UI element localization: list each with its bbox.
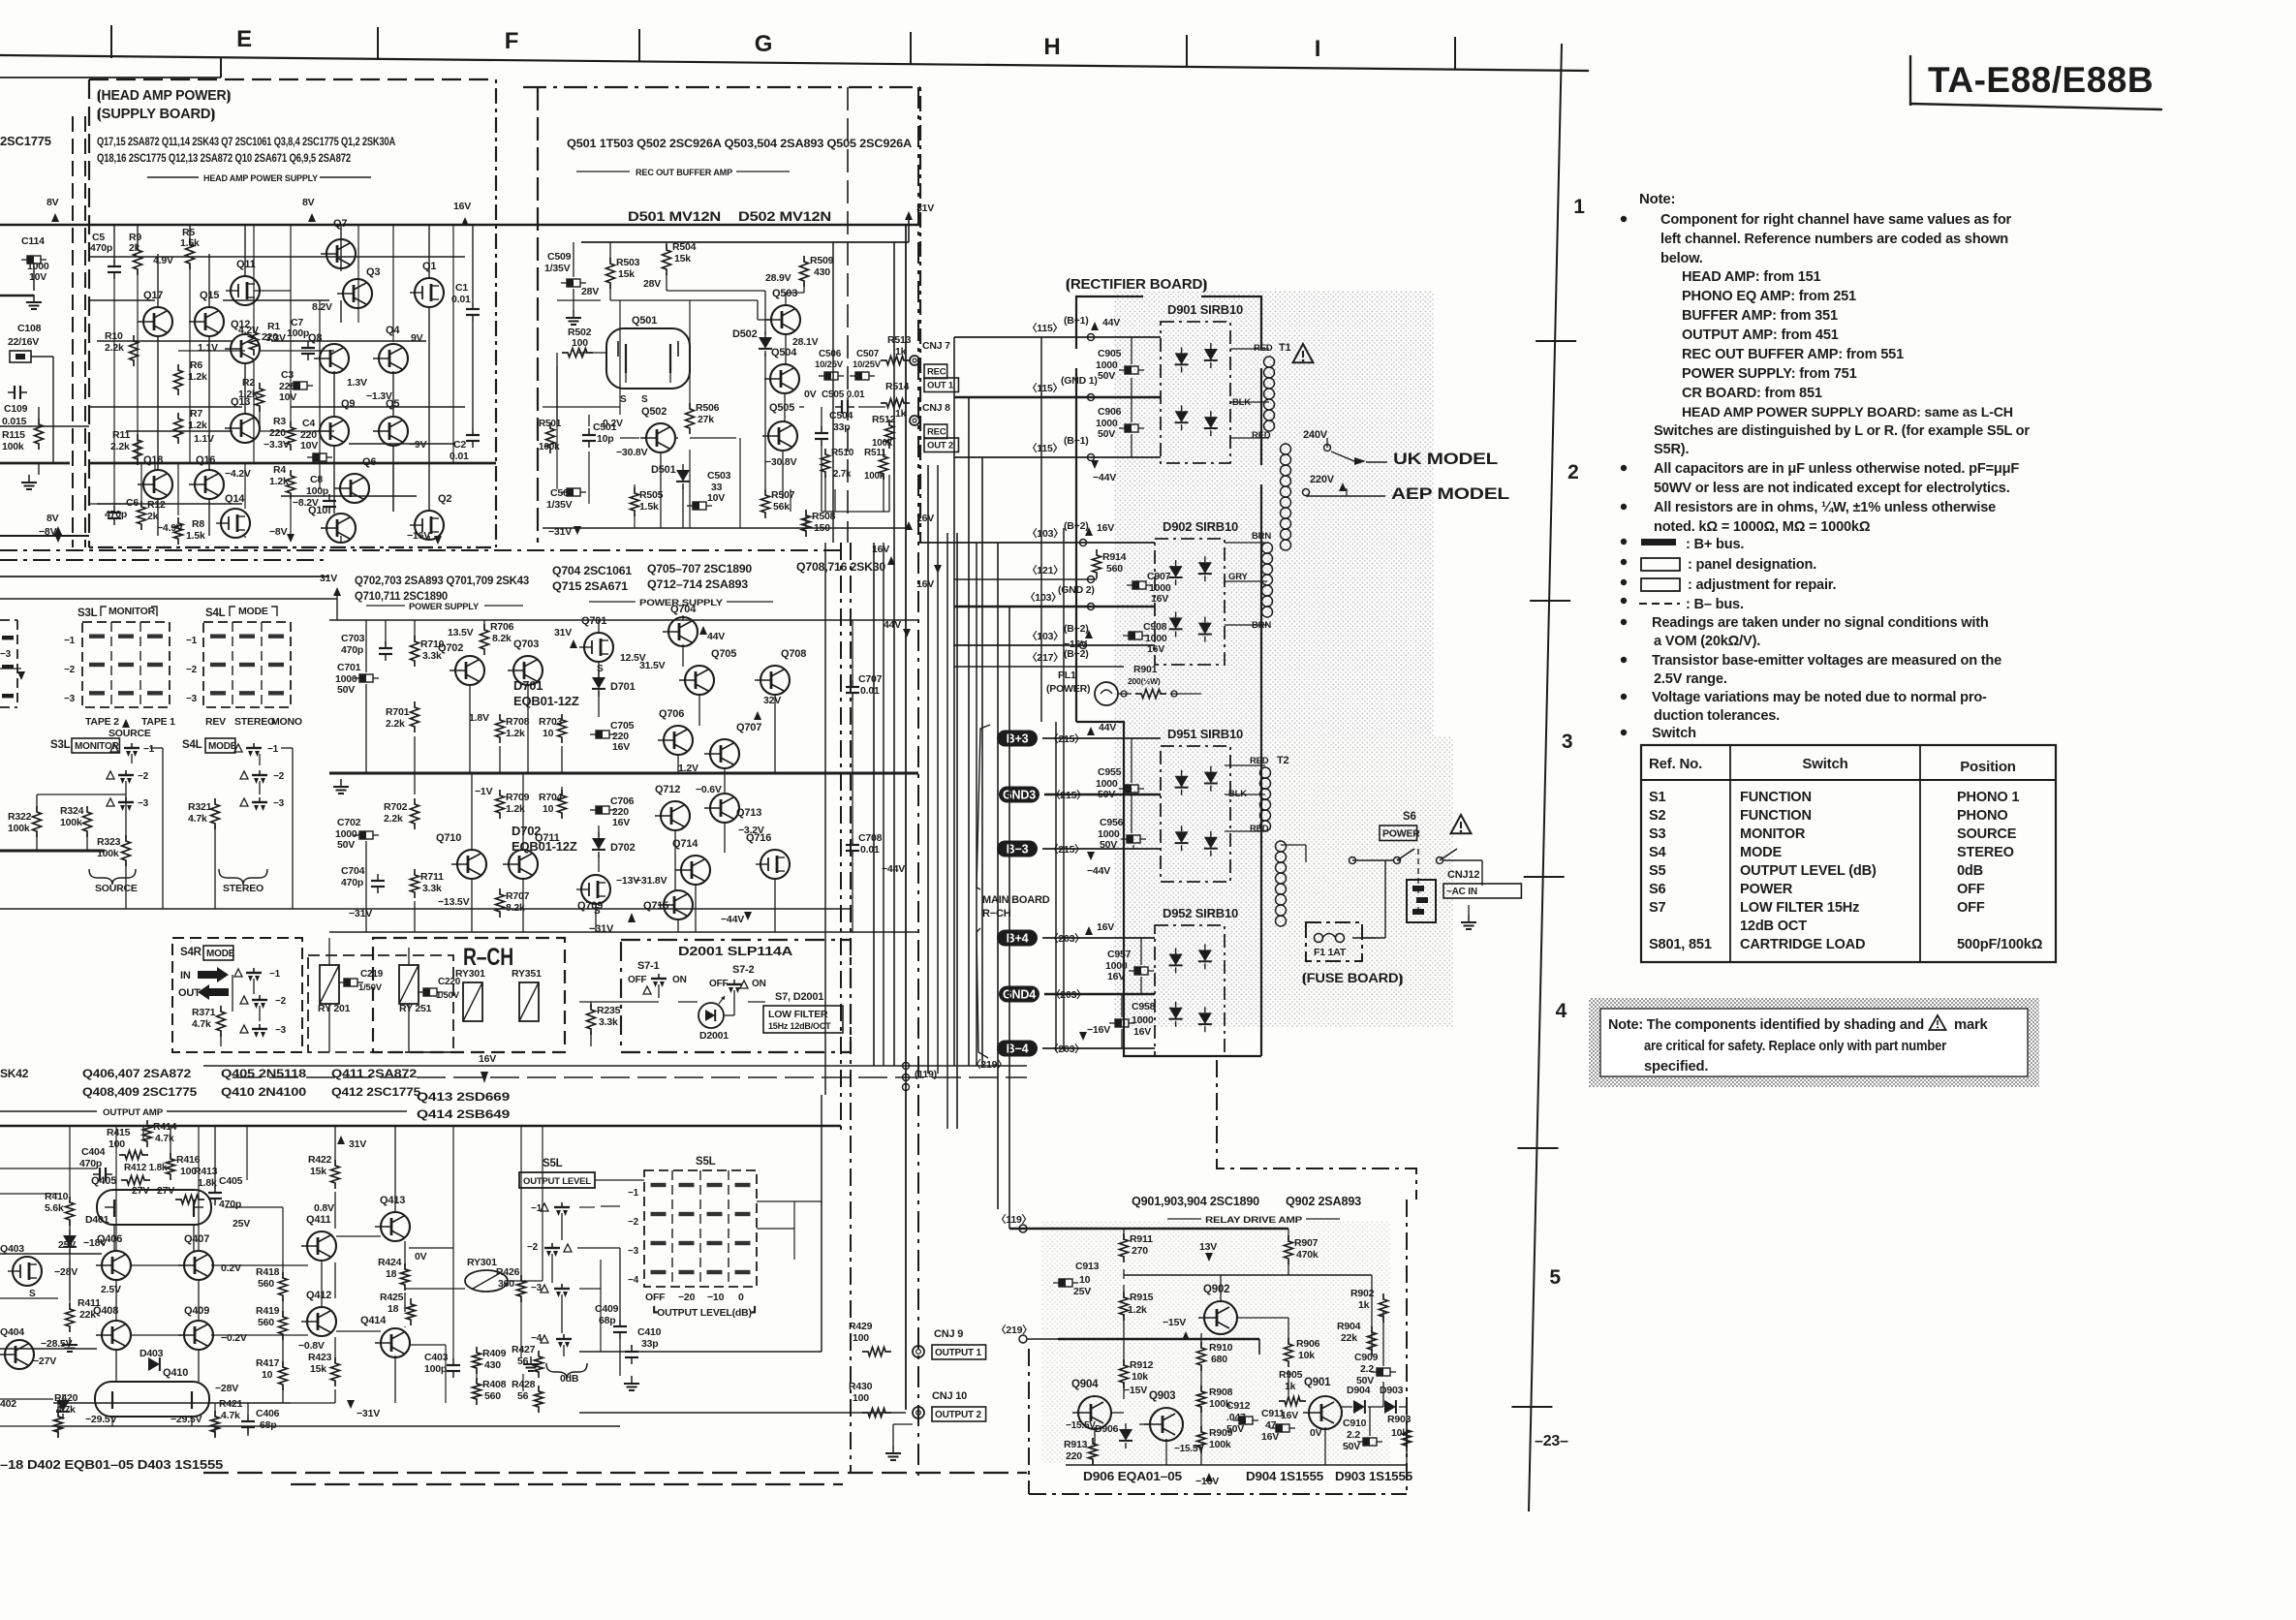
svg-text:10V: 10V xyxy=(29,271,47,283)
node OUTPUT1 label xyxy=(932,1345,986,1359)
node note bullet5 xyxy=(1621,559,1627,565)
transistor Q708 xyxy=(760,666,790,695)
transistor Q406 xyxy=(102,1251,131,1280)
svg-text:470p: 470p xyxy=(341,644,363,656)
svg-text:MODE: MODE xyxy=(1740,845,1782,860)
transistor Q707 xyxy=(710,739,739,768)
svg-text:560: 560 xyxy=(484,1390,501,1402)
svg-text:AEP MODEL: AEP MODEL xyxy=(1391,484,1509,503)
switch contact -3 xyxy=(252,801,267,803)
resistor R906 xyxy=(1285,1338,1293,1367)
svg-text:R408: R408 xyxy=(482,1379,507,1390)
transformer T2 secondary xyxy=(1260,767,1271,778)
capacitor C220 xyxy=(423,988,437,996)
svg-text:C6: C6 xyxy=(126,497,139,509)
svg-text:33p: 33p xyxy=(641,1338,659,1350)
node 16V xyxy=(905,521,913,530)
transistor Q902 xyxy=(1204,1301,1237,1334)
svg-text:POWER SUPPLY: POWER SUPPLY xyxy=(409,602,480,612)
svg-text:8.2k: 8.2k xyxy=(492,633,512,644)
svg-text:S2: S2 xyxy=(1649,808,1666,824)
wire xyxy=(937,465,939,1074)
wire xyxy=(946,533,948,1129)
svg-text:Q412 2SC1775: Q412 2SC1775 xyxy=(331,1085,421,1099)
svg-text:~AC IN: ~AC IN xyxy=(1446,887,1477,897)
wire xyxy=(927,465,929,1074)
svg-text:R906: R906 xyxy=(1296,1338,1320,1350)
svg-text:〈103〉: 〈103〉 xyxy=(1027,527,1064,540)
svg-text:S4L: S4L xyxy=(182,739,202,751)
svg-text:15k: 15k xyxy=(310,1363,326,1375)
svg-text:Q712: Q712 xyxy=(655,784,680,795)
svg-text:R423: R423 xyxy=(308,1352,332,1363)
switch contact -2 xyxy=(118,774,134,776)
wire xyxy=(113,1225,115,1251)
svg-text:: adjustment for repair.: : adjustment for repair. xyxy=(1688,577,1836,593)
svg-text:Q704: Q704 xyxy=(670,604,697,615)
svg-text:R501: R501 xyxy=(539,419,562,429)
svg-text:C409: C409 xyxy=(595,1303,619,1315)
wire xyxy=(678,931,918,933)
wire xyxy=(579,1001,659,1003)
wire xyxy=(690,437,736,439)
svg-text:Q503: Q503 xyxy=(772,288,797,299)
svg-text:R908: R908 xyxy=(1209,1386,1233,1398)
svg-text:10V: 10V xyxy=(300,440,318,452)
wire xyxy=(97,340,233,342)
svg-text:0dB: 0dB xyxy=(1957,863,1983,879)
svg-text:C3: C3 xyxy=(281,369,294,381)
transistor Q706 xyxy=(664,726,693,755)
node GND3 pill xyxy=(999,787,1039,803)
svg-text:Q403: Q403 xyxy=(0,1243,24,1255)
svg-text:50V: 50V xyxy=(1226,1423,1244,1435)
svg-text:2.5V range.: 2.5V range. xyxy=(1654,671,1727,687)
svg-text:22/16V: 22/16V xyxy=(8,336,39,348)
diode D403 xyxy=(148,1357,160,1371)
svg-text:(GND 1): (GND 1) xyxy=(1061,375,1098,387)
wire xyxy=(888,475,890,512)
node note bullet8 xyxy=(1621,619,1627,625)
node REC OUT2 label xyxy=(924,424,947,439)
svg-text:S1: S1 xyxy=(1649,790,1666,805)
svg-text:R708: R708 xyxy=(506,716,530,728)
svg-text:Q412: Q412 xyxy=(306,1290,331,1301)
svg-text:R901: R901 xyxy=(1133,664,1158,675)
ground xyxy=(1468,915,1470,922)
svg-text:Q902 2SA893: Q902 2SA893 xyxy=(1286,1195,1361,1208)
transistor Q409 xyxy=(184,1321,213,1350)
svg-text:31V: 31V xyxy=(320,573,337,584)
svg-text:C907: C907 xyxy=(1147,571,1171,582)
svg-text:R324: R324 xyxy=(60,805,84,817)
svg-text:16V: 16V xyxy=(872,544,889,555)
transistor Q411 xyxy=(307,1231,336,1261)
svg-text:PL1: PL1 xyxy=(1058,670,1076,681)
svg-text:(B−2): (B−2) xyxy=(1064,623,1089,635)
transistor Q15 xyxy=(195,307,224,336)
svg-text:Q405 2N5118: Q405 2N5118 xyxy=(221,1067,307,1080)
svg-text:D952 SIRB10: D952 SIRB10 xyxy=(1163,906,1238,920)
svg-text:CR BOARD: from 851: CR BOARD: from 851 xyxy=(1682,386,1822,401)
node note bullet11 xyxy=(1621,730,1627,735)
switch S4R array xyxy=(172,938,302,1052)
transformer T2 primary xyxy=(1276,841,1287,852)
wire xyxy=(520,1126,522,1281)
node SOURCE brace xyxy=(89,869,136,885)
node note bullet10 xyxy=(1621,694,1627,700)
svg-text:PHONO: PHONO xyxy=(1957,808,2008,824)
transistor Q18 xyxy=(143,470,172,499)
svg-text:D903 1S1555: D903 1S1555 xyxy=(1335,1470,1412,1483)
svg-text:R903: R903 xyxy=(1387,1414,1412,1425)
svg-text:1.2k: 1.2k xyxy=(188,371,207,383)
resistor R702 xyxy=(411,798,419,829)
svg-text:10: 10 xyxy=(262,1369,273,1381)
resistor R9 xyxy=(134,244,142,275)
svg-text:〈121〉: 〈121〉 xyxy=(1027,564,1064,576)
svg-text:SOURCE: SOURCE xyxy=(95,883,138,894)
svg-text:−0.2V: −0.2V xyxy=(221,1332,247,1344)
svg-text:Q408,409 2SC1775: Q408,409 2SC1775 xyxy=(82,1085,198,1099)
svg-text:10k: 10k xyxy=(1132,1371,1148,1383)
node -16V supply xyxy=(434,536,442,545)
wire xyxy=(282,1262,284,1278)
svg-text:R915: R915 xyxy=(1130,1292,1154,1303)
svg-text:R371: R371 xyxy=(192,1007,216,1018)
svg-text:470p: 470p xyxy=(341,877,363,888)
switch contact S4R-2 xyxy=(252,999,267,1001)
svg-text:Q414: Q414 xyxy=(360,1315,387,1326)
svg-text:TAPE 2: TAPE 2 xyxy=(85,716,119,728)
svg-text:Voltage variations may be note: Voltage variations may be noted due to n… xyxy=(1652,690,1987,705)
transistor Q6 xyxy=(340,474,369,503)
svg-text:16V: 16V xyxy=(916,578,934,590)
svg-text:ON: ON xyxy=(752,979,766,989)
svg-text:56: 56 xyxy=(517,1355,529,1367)
svg-text:SK42: SK42 xyxy=(0,1067,29,1080)
svg-text:Switches are distinguished by: Switches are distinguished by L or R. (f… xyxy=(1654,423,2030,439)
resistor R508 xyxy=(802,510,811,537)
svg-text:R907: R907 xyxy=(1294,1237,1319,1249)
svg-text:Q901,903,904 2SC1890: Q901,903,904 2SC1890 xyxy=(1132,1195,1259,1208)
transistor Q705 xyxy=(685,666,714,695)
wire xyxy=(1092,1459,1094,1465)
svg-text:2k: 2k xyxy=(129,242,140,254)
svg-text:−2: −2 xyxy=(527,1242,539,1253)
wire xyxy=(244,363,246,414)
svg-text:BUFFER AMP: from 351: BUFFER AMP: from 351 xyxy=(1682,308,1838,324)
svg-text:R7: R7 xyxy=(190,408,202,420)
svg-text:0: 0 xyxy=(738,1292,744,1303)
svg-text:S5: S5 xyxy=(1649,863,1666,879)
node CNJ8 xyxy=(910,416,919,425)
svg-text:R427: R427 xyxy=(512,1344,536,1355)
svg-text:(119): (119) xyxy=(915,1069,937,1080)
wire xyxy=(84,116,86,547)
svg-text:R912: R912 xyxy=(1130,1359,1154,1371)
svg-text:8.2k: 8.2k xyxy=(506,902,525,914)
svg-text:−1: −1 xyxy=(64,636,76,646)
svg-text:OFF: OFF xyxy=(1957,900,1985,916)
capacitor C219 xyxy=(344,979,357,986)
resistor R915 xyxy=(1120,1292,1129,1321)
wire xyxy=(472,225,474,302)
svg-text:18: 18 xyxy=(388,1303,399,1315)
svg-text:−44V: −44V xyxy=(721,914,744,925)
node right border xyxy=(1406,1199,1408,1494)
svg-text:270: 270 xyxy=(1132,1245,1148,1257)
svg-text:R414: R414 xyxy=(153,1121,177,1133)
svg-text:−2: −2 xyxy=(64,665,76,675)
svg-text:16V: 16V xyxy=(1133,1026,1151,1038)
svg-text:HEAD AMP POWER SUPPLY BOARD:: HEAD AMP POWER SUPPLY BOARD: same as L-C… xyxy=(1682,405,2013,421)
svg-text:10p: 10p xyxy=(597,433,614,445)
wire xyxy=(581,241,909,243)
svg-text:0.01: 0.01 xyxy=(860,844,880,856)
svg-text:1000: 1000 xyxy=(1132,1014,1154,1026)
resistor R704 xyxy=(558,790,567,819)
node main board bottom border xyxy=(291,1483,843,1485)
ground xyxy=(631,1376,633,1384)
transistor Q17 xyxy=(143,307,172,336)
wire xyxy=(0,224,89,226)
transistor Q702 xyxy=(455,656,484,685)
svg-text:D701: D701 xyxy=(610,681,636,693)
svg-text:560: 560 xyxy=(258,1278,274,1290)
svg-text:Q411: Q411 xyxy=(306,1214,331,1226)
resistor R910 xyxy=(1197,1342,1206,1371)
node rec out board border xyxy=(523,86,920,88)
svg-text:S5R).: S5R). xyxy=(1654,442,1689,457)
svg-text:C707: C707 xyxy=(858,673,883,685)
resistor R502 xyxy=(562,349,593,358)
wire xyxy=(131,1264,184,1266)
svg-text:0.01: 0.01 xyxy=(860,685,880,697)
wire xyxy=(1200,1333,1202,1349)
node output amp subtitle xyxy=(0,1110,97,1112)
wire xyxy=(1382,1310,1384,1366)
svg-text:R6: R6 xyxy=(190,359,202,371)
capacitor C707 xyxy=(852,680,853,687)
wire xyxy=(543,527,909,529)
resistor R710 xyxy=(411,636,419,667)
svg-text:R417: R417 xyxy=(256,1357,280,1369)
svg-text:1.1V: 1.1V xyxy=(194,433,214,445)
svg-text:2.2k: 2.2k xyxy=(386,718,405,730)
svg-text:50V: 50V xyxy=(1098,370,1115,382)
wire xyxy=(0,425,89,427)
transistor Q13 xyxy=(231,414,260,443)
svg-text:Q2: Q2 xyxy=(438,493,451,505)
svg-text:−31V: −31V xyxy=(589,923,614,935)
diode D702 zener xyxy=(592,838,605,850)
svg-text:200(½W): 200(½W) xyxy=(1128,676,1161,686)
wire xyxy=(677,755,679,773)
node 16V left labels xyxy=(887,556,895,565)
resistor R909 xyxy=(1197,1426,1206,1453)
wire xyxy=(72,116,74,547)
wire xyxy=(0,1125,841,1128)
node 31V supply xyxy=(905,211,913,220)
svg-text:R914: R914 xyxy=(1102,551,1127,563)
svg-text:16V: 16V xyxy=(453,201,471,212)
svg-text:1k: 1k xyxy=(1285,1381,1296,1392)
svg-text:REC: REC xyxy=(927,367,946,378)
svg-text:〈217〉: 〈217〉 xyxy=(1027,651,1064,664)
svg-text:S5L: S5L xyxy=(543,1158,563,1169)
capacitor C908 xyxy=(1129,632,1142,639)
svg-text:−15V: −15V xyxy=(1163,1317,1186,1328)
svg-text:TAPE 1: TAPE 1 xyxy=(141,716,175,728)
wire xyxy=(1063,528,1065,1051)
svg-text:28V: 28V xyxy=(643,278,661,290)
svg-text:Q6: Q6 xyxy=(362,456,376,468)
node power supply subtitle xyxy=(366,605,405,607)
svg-text:13.5V: 13.5V xyxy=(448,627,474,639)
svg-text:D902 SIRB10: D902 SIRB10 xyxy=(1163,519,1238,534)
svg-text:−20: −20 xyxy=(678,1292,696,1303)
svg-text:: B– bus.: : B– bus. xyxy=(1686,597,1744,612)
svg-text:R706: R706 xyxy=(490,621,514,633)
wire xyxy=(215,780,244,782)
svg-text:〈219〉: 〈219〉 xyxy=(996,1324,1033,1336)
wire xyxy=(660,452,662,528)
capacitor C706 xyxy=(596,806,609,814)
svg-text:9V: 9V xyxy=(411,332,423,344)
wire xyxy=(97,503,242,505)
wire xyxy=(956,533,958,1129)
wire xyxy=(595,1179,644,1181)
wire xyxy=(573,242,574,277)
svg-text:Q16: Q16 xyxy=(196,454,215,466)
transistor Q12 xyxy=(231,334,260,363)
svg-text:0V: 0V xyxy=(1310,1427,1322,1439)
svg-text:470k: 470k xyxy=(1296,1249,1319,1261)
svg-text:50V: 50V xyxy=(1098,428,1115,440)
svg-text:MAIN BOARD: MAIN BOARD xyxy=(982,894,1050,906)
svg-text:C410: C410 xyxy=(637,1326,662,1338)
transistor Q716 xyxy=(760,850,790,879)
svg-text:1k: 1k xyxy=(895,408,907,420)
svg-text:D403: D403 xyxy=(140,1348,164,1359)
wire xyxy=(409,1247,453,1249)
svg-text:−16V: −16V xyxy=(1087,1024,1110,1036)
svg-text:240V: 240V xyxy=(1303,429,1328,441)
capacitor C708 xyxy=(852,838,853,845)
svg-text:−8.2V: −8.2V xyxy=(293,497,319,509)
wire xyxy=(38,407,40,419)
node 0dB brace xyxy=(530,1356,532,1364)
svg-text:PHONO EQ AMP: from 251: PHONO EQ AMP: from 251 xyxy=(1682,289,1856,304)
svg-text:R509: R509 xyxy=(810,255,834,266)
svg-text:100: 100 xyxy=(853,1332,869,1344)
node REC OUT1 label xyxy=(924,364,947,379)
svg-text:C704: C704 xyxy=(341,865,365,877)
wire xyxy=(1040,337,1042,722)
svg-text:POWER SUPPLY: from 751: POWER SUPPLY: from 751 xyxy=(1682,366,1857,382)
svg-text:Q704 2SC1061: Q704 2SC1061 xyxy=(552,566,633,577)
transistor Q2 xyxy=(415,511,444,540)
wire xyxy=(31,356,53,358)
wire xyxy=(1123,1269,1125,1279)
node -31V arrow xyxy=(347,1400,355,1409)
wire xyxy=(333,446,335,514)
node dual transistor Q405 xyxy=(97,1190,211,1225)
resistor R513 xyxy=(881,357,910,365)
capacitor C114 xyxy=(27,256,41,264)
wire xyxy=(918,542,954,544)
svg-text:RY 201: RY 201 xyxy=(318,1003,351,1014)
node switch table header line xyxy=(1641,779,2056,781)
svg-text:STEREO: STEREO xyxy=(223,883,264,894)
diode D906 zener xyxy=(1119,1429,1132,1441)
svg-text:−3: −3 xyxy=(138,798,149,809)
resistor R12 xyxy=(138,501,146,530)
svg-text:Q17: Q17 xyxy=(143,290,163,301)
svg-text:−44V: −44V xyxy=(882,863,905,875)
transistor Q407 xyxy=(184,1251,213,1280)
svg-text:C506: C506 xyxy=(819,349,842,359)
transistor Q14 xyxy=(221,509,250,538)
wire xyxy=(253,225,255,329)
svg-text:R−CH: R−CH xyxy=(982,908,1011,919)
node head amp board border xyxy=(88,79,90,547)
svg-text:100p: 100p xyxy=(306,485,328,497)
svg-text:E: E xyxy=(236,26,252,52)
svg-text:R703: R703 xyxy=(539,716,563,728)
svg-text:100k: 100k xyxy=(1209,1439,1231,1450)
svg-text:1/50V: 1/50V xyxy=(436,990,460,1001)
svg-text:C503: C503 xyxy=(707,470,731,482)
svg-text:All resistors are in ohms, ¼W,: All resistors are in ohms, ¼W, ±1% unles… xyxy=(1654,500,1996,515)
diode D903 xyxy=(1384,1400,1396,1414)
svg-text:MODE: MODE xyxy=(206,949,235,959)
wire xyxy=(824,543,826,1095)
svg-text:Q7: Q7 xyxy=(333,218,347,230)
svg-text:STEREO: STEREO xyxy=(1957,845,2014,860)
diode D701 zener xyxy=(592,677,605,689)
svg-text:S3L: S3L xyxy=(50,739,71,751)
svg-text:2SC1775: 2SC1775 xyxy=(0,134,51,148)
svg-text:3.3k: 3.3k xyxy=(599,1016,618,1028)
transistor Q1 xyxy=(415,278,444,307)
svg-text:C956: C956 xyxy=(1100,817,1124,828)
svg-text:C108: C108 xyxy=(17,323,42,334)
resistor R708 xyxy=(496,714,505,743)
svg-text:S4R: S4R xyxy=(180,947,202,958)
svg-text:UK MODEL: UK MODEL xyxy=(1393,450,1498,468)
resistor R504 xyxy=(663,244,671,275)
svg-text:F: F xyxy=(505,28,518,54)
svg-text:R115: R115 xyxy=(2,429,25,441)
transistor Q711 xyxy=(509,850,538,879)
svg-text:50V: 50V xyxy=(1343,1441,1360,1452)
node S6 dashed link xyxy=(1417,849,1419,915)
wire xyxy=(115,1126,117,1251)
svg-text:R508: R508 xyxy=(812,511,836,522)
svg-text:C8: C8 xyxy=(310,474,323,485)
node note bullet2 xyxy=(1621,465,1627,471)
svg-text:are critical for safety. Repl: are critical for safety. Replace only wi… xyxy=(1644,1039,1946,1054)
svg-text:100k: 100k xyxy=(60,817,82,828)
wire xyxy=(832,242,834,543)
svg-text:Q413: Q413 xyxy=(380,1195,405,1206)
transistor Q715 xyxy=(664,890,693,919)
svg-text:470p: 470p xyxy=(79,1158,102,1169)
svg-text:1.3V: 1.3V xyxy=(347,377,367,389)
svg-text:−15.5V: −15.5V xyxy=(1066,1420,1096,1431)
